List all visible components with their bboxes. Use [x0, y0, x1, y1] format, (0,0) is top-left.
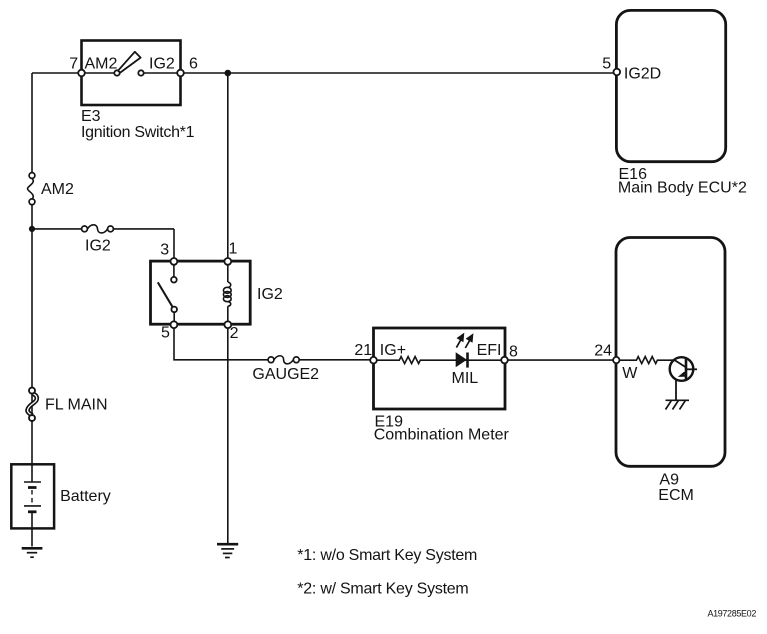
svg-text:IG2: IG2	[85, 238, 111, 255]
svg-text:W: W	[622, 365, 638, 382]
svg-text:8: 8	[509, 344, 518, 361]
svg-text:IG2D: IG2D	[624, 66, 661, 83]
svg-text:IG2: IG2	[149, 56, 175, 73]
svg-text:GAUGE2: GAUGE2	[252, 366, 319, 383]
svg-text:AM2: AM2	[85, 56, 118, 73]
svg-text:E3: E3	[81, 108, 101, 125]
svg-text:Battery: Battery	[60, 488, 111, 505]
svg-text:IG2: IG2	[257, 286, 283, 303]
svg-text:*1: w/o Smart Key System: *1: w/o Smart Key System	[297, 547, 477, 564]
svg-text:FL MAIN: FL MAIN	[45, 397, 108, 414]
svg-text:1: 1	[229, 241, 238, 258]
svg-text:Combination Meter: Combination Meter	[374, 427, 510, 444]
svg-text:A197285E02: A197285E02	[707, 609, 756, 619]
svg-text:Ignition Switch*1: Ignition Switch*1	[81, 124, 195, 141]
svg-text:EFI: EFI	[477, 342, 502, 359]
svg-text:MIL: MIL	[452, 370, 479, 387]
svg-text:Main Body ECU*2: Main Body ECU*2	[618, 180, 747, 197]
svg-text:AM2: AM2	[41, 181, 74, 198]
svg-text:3: 3	[160, 241, 169, 258]
svg-text:5: 5	[602, 55, 611, 72]
svg-text:24: 24	[594, 343, 612, 360]
svg-text:7: 7	[69, 56, 78, 73]
svg-text:ECM: ECM	[658, 487, 694, 504]
svg-text:IG+: IG+	[380, 342, 406, 359]
svg-text:21: 21	[354, 342, 372, 359]
svg-text:2: 2	[230, 325, 239, 342]
svg-text:5: 5	[161, 324, 170, 341]
svg-text:*2: w/ Smart Key System: *2: w/ Smart Key System	[297, 580, 468, 597]
svg-text:6: 6	[189, 56, 198, 73]
